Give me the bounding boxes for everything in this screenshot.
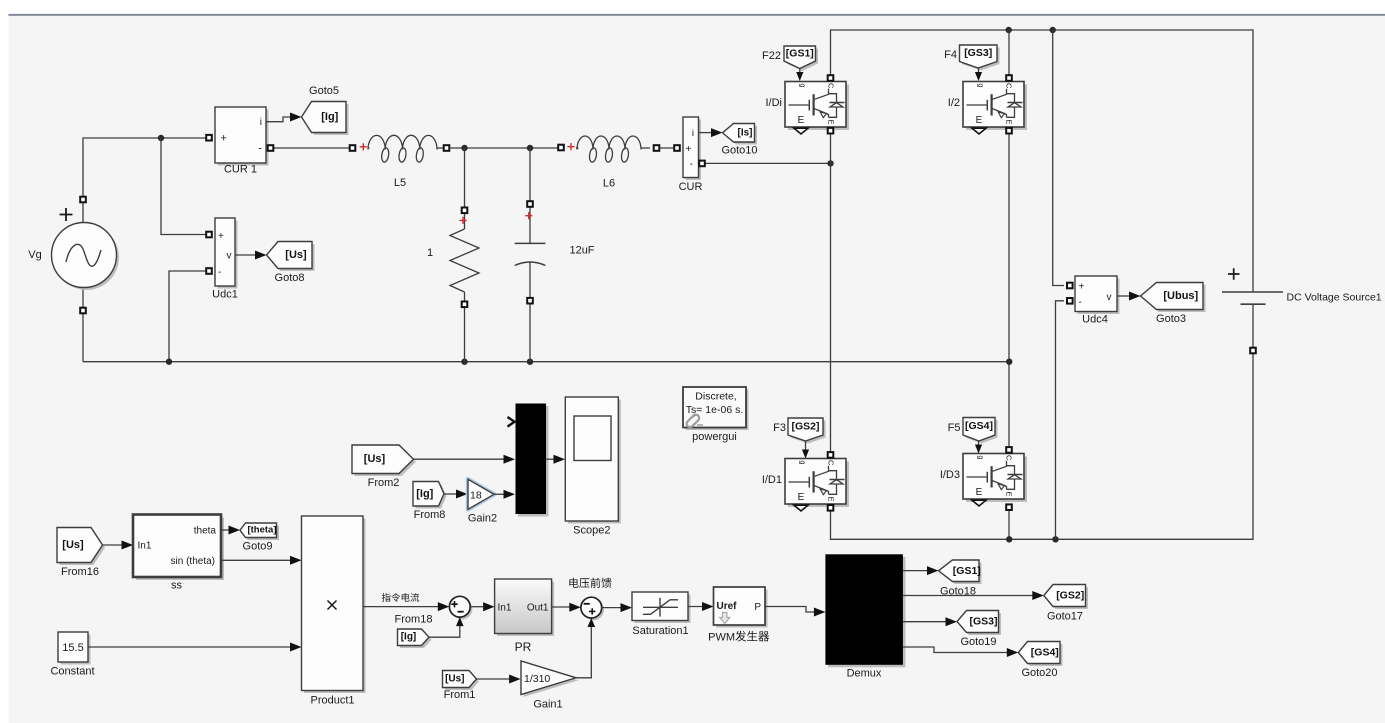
svg-text:Goto17: Goto17 [1047,611,1083,623]
sum Sum2 [581,597,604,620]
wire right leg mid (I/2 emitter to I/D3 collector) [1008,127,1010,454]
goto tag Goto8 [Us] [267,242,315,285]
wire F4 gate arrow [978,68,980,74]
svg-text:From16: From16 [61,566,99,578]
svg-text:L5: L5 [394,177,406,189]
goto tag Goto20 [GS4] [1018,642,1062,680]
svg-text:Saturation1: Saturation1 [632,625,688,637]
svg-text:C: C [1005,83,1014,89]
from tag F22 [GS1] [762,46,818,71]
svg-text:+: + [221,133,227,145]
gain Gain1 [521,661,579,711]
IGBT I/2 [948,82,1027,135]
wire ss sin(theta) to Product1 [221,559,293,561]
svg-text:[Us]: [Us] [445,674,464,685]
svg-text:From2: From2 [368,477,400,489]
wire left leg mid (I/Di emitter to I/D1 collector) [830,127,832,459]
junction top bus / Udc4 + branch [1050,27,1056,33]
wire bottom AC bus [83,361,1010,363]
wire CUR 1 - output to L5 [269,147,353,149]
svg-text:In1: In1 [498,603,512,614]
wire Vg top to CUR 1 + input [83,138,209,223]
svg-text:[Ig]: [Ig] [321,111,338,123]
wire From2 to Mux [414,458,508,460]
svg-text:Gain1: Gain1 [533,699,562,711]
svg-text:Product1: Product1 [310,695,354,707]
wire resistor to bottom bus [464,292,466,362]
svg-text:Goto20: Goto20 [1021,667,1057,679]
svg-text:i: i [692,128,694,139]
svg-text:Vg: Vg [28,249,41,261]
junction bottom DC bus / I/D3 emitter [1006,536,1012,542]
svg-text:[GS3]: [GS3] [964,47,992,59]
wire DC top bus [831,30,1254,292]
svg-text:v: v [1107,292,1112,303]
wire capacitor to bottom bus [529,263,531,362]
from tag From8 [Ig] [413,482,447,522]
node A junction (Vg top / Udc1 branch) [158,135,164,141]
PR controller block [495,579,554,654]
svg-text:v: v [227,251,232,262]
svg-text:g: g [799,83,808,87]
wire Gain1 to Sum2 bottom [576,625,591,678]
svg-text:sin (theta): sin (theta) [171,556,215,567]
svg-text:Goto10: Goto10 [721,145,757,157]
svg-text:Goto9: Goto9 [243,541,273,553]
svg-text:[Ig]: [Ig] [401,632,417,643]
powergui block [683,387,749,443]
svg-text:Demux: Demux [847,668,882,680]
junction bottom bus / Udc1 branch [166,359,172,365]
IGBT I/D3 [940,454,1027,507]
svg-text:-: - [1079,297,1082,308]
wire From16 to ss [103,544,126,546]
demux Demux (black) [825,554,905,679]
PWM generator block [708,587,769,644]
mux Mux1 (black) [508,404,549,517]
polarity mark L6 left [558,145,564,151]
svg-text:[Us]: [Us] [285,249,307,261]
wire F5 gate arrow [978,441,980,446]
svg-text:E: E [827,496,836,501]
svg-text:[GS3]: [GS3] [969,616,997,628]
svg-text:C: C [827,83,836,89]
wire Demux out4 to Goto20 [903,647,1010,653]
svg-text:CUR: CUR [679,181,703,193]
svg-text:E: E [976,115,983,126]
svg-text:F22: F22 [762,50,781,62]
svg-text:theta: theta [194,526,217,537]
svg-text:[Ig]: [Ig] [416,488,433,500]
DC Voltage Source1 battery [1222,268,1382,353]
svg-text:Goto19: Goto19 [960,636,996,648]
wire PWM P output to Demux [765,607,818,613]
svg-text:F4: F4 [944,49,957,61]
from tag From2 [Us] [352,445,416,489]
svg-text:E: E [798,492,805,503]
svg-text:I/D1: I/D1 [762,474,782,486]
svg-text:g: g [799,460,808,464]
svg-text:Goto8: Goto8 [275,272,305,284]
svg-text:Out1: Out1 [527,603,549,614]
wire Udc4 - branch [1056,301,1065,540]
svg-text:Udc1: Udc1 [212,289,238,301]
saturation Saturation1 [632,592,691,637]
svg-text:Scope2: Scope2 [573,525,610,537]
goto tag Goto5 [Ig] [302,85,349,135]
goto tag Goto18 [GS1] [939,560,982,597]
wire Udc1 v output to Goto8 [235,254,258,256]
label command current (zhiling dianliu) [382,593,419,602]
svg-text:Uref: Uref [717,601,738,612]
svg-text:Udc4: Udc4 [1082,314,1108,326]
svg-text:[GS4]: [GS4] [965,420,993,432]
svg-text:1/310: 1/310 [524,673,550,685]
from tag From18 [Ig] [398,629,432,648]
svg-text:+: + [1079,282,1085,293]
svg-text:F5: F5 [948,422,961,434]
svg-text:1: 1 [427,247,433,259]
svg-text:E: E [1005,119,1014,124]
wire branch to Udc1 + input [161,138,209,235]
svg-text:Discrete,: Discrete, [695,391,736,403]
svg-text:[GS4]: [GS4] [1031,647,1059,659]
wire PR to Sum2 [552,606,572,608]
label voltage feedforward (dianya qiankui) [569,578,611,588]
goto tag Goto9 [theta] [240,523,279,553]
junction bottom DC bus / Udc4 - branch [1052,536,1058,542]
wire From8 to Gain2 [444,493,459,495]
inductor L5 [368,135,450,189]
product Product1 [302,516,366,707]
svg-text:L6: L6 [603,178,615,190]
svg-text:From8: From8 [414,509,446,521]
svg-text:P: P [754,602,761,613]
svg-text:15.5: 15.5 [62,642,83,654]
svg-text:E: E [827,119,836,124]
svg-text:DC Voltage Source1: DC Voltage Source1 [1287,292,1382,304]
wire F22 gate arrow [799,69,801,75]
svg-text:-: - [218,267,221,278]
AC source Vg [28,197,119,314]
wire L5 to L6 through filter nodes [449,147,559,149]
svg-text:powergui: powergui [692,431,737,443]
resistor 1 [427,229,479,292]
svg-text:18: 18 [470,490,482,502]
inductor L6 [576,136,659,190]
svg-text:g: g [977,455,986,459]
svg-text:Goto3: Goto3 [1156,313,1186,325]
wire Mux to Scope2 [546,458,557,460]
from tag From1 [Us] [443,671,480,702]
svg-text:[Us]: [Us] [364,453,386,465]
wire Vg bottom to bottom AC bus [82,288,84,362]
goto tag Goto17 [GS2] [1044,585,1088,623]
capacitor branch wire [529,148,531,243]
svg-text:[Ubus]: [Ubus] [1163,290,1198,302]
current measurement CUR [679,117,703,193]
wire left leg bottom to DC bottom bus [831,304,1254,539]
svg-text:I/2: I/2 [948,97,960,109]
svg-text:g: g [977,83,986,87]
IGBT I/D1 [762,459,849,512]
svg-text:-: - [258,143,262,155]
svg-text:In1: In1 [138,541,152,552]
sum Sum1 [449,596,472,619]
scope Scope2 [565,397,621,537]
wire Sum2 to Saturation1 [602,607,624,609]
svg-text:[GS2]: [GS2] [1056,590,1084,602]
from tag F4 [GS3] [944,45,999,71]
svg-text:Constant: Constant [50,666,94,678]
wire Udc4 v output to Goto3 [1117,295,1132,297]
wire Demux out2 to Goto17 [903,595,1036,597]
load resistor branch wire [464,148,466,229]
junction top bus / I2 collector [1006,27,1012,33]
wire Demux out1 to Goto18 [903,570,930,572]
polarity mark L5 left [360,143,367,150]
wire Sum1 to PR [470,606,486,608]
svg-text:+: + [686,144,692,155]
wire CUR 1 i output to Goto5 [266,117,293,122]
svg-text:Gain2: Gain2 [468,513,497,525]
wire CUR i output to Goto10 [699,132,715,134]
svg-text:[GS2]: [GS2] [791,421,819,433]
voltage measurement Udc4 [1067,276,1120,326]
svg-text:[GS1]: [GS1] [953,565,981,577]
svg-text:E: E [798,115,805,126]
from tag F3 [GS2] [773,418,825,444]
goto tag Goto3 [Ubus] [1141,283,1206,326]
svg-text:i: i [260,117,262,128]
svg-text:E: E [1005,491,1014,496]
svg-text:PWM: PWM [708,632,735,644]
subsystem ss [133,515,224,592]
IGBT I/Di [766,82,850,135]
svg-text:C: C [827,460,836,466]
voltage measurement Udc1 [206,218,238,301]
wire Gain2 to Mux [494,493,507,495]
svg-text:ss: ss [171,580,183,592]
from tag From16 [Us] [57,528,105,579]
from tag F5 [GS4] [948,418,998,444]
svg-text:F3: F3 [773,422,786,434]
wire From1 to Gain1 [477,678,513,680]
svg-text:CUR 1: CUR 1 [224,164,257,176]
wire Demux out3 to Goto19 [903,621,949,623]
wire right leg top (I/2 collector) [1008,30,1010,82]
svg-text:[theta]: [theta] [247,525,276,536]
wire Constant to Product1 [88,646,293,648]
wire Udc1 - input from bottom bus [169,271,209,362]
wire ss theta to Goto9 [221,529,232,531]
svg-text:I/Di: I/Di [766,97,783,109]
svg-text:12uF: 12uF [569,245,594,257]
junction bottom bus / load R branch [461,359,467,365]
gain Gain2 [468,479,497,524]
svg-text:[GS1]: [GS1] [786,48,814,60]
wire F3 gate arrow [805,441,807,451]
goto tag Goto10 [Is] [721,124,757,157]
wire Udc4 + branch [1053,30,1064,286]
svg-text:-: - [690,159,693,170]
svg-text:+: + [218,231,224,242]
svg-text:[Us]: [Us] [62,539,84,551]
wire CUR - output to bridge left leg [704,162,831,164]
wire right leg bottom (I/D3 emitter) [1008,504,1010,540]
svg-text:From18: From18 [395,614,433,626]
wire Saturation1 to PWM [688,606,705,608]
svg-text:[Is]: [Is] [738,127,753,138]
current measurement CUR 1 [206,107,268,176]
svg-text:I/D3: I/D3 [940,469,960,481]
svg-text:PR: PR [515,640,532,654]
svg-text:Goto5: Goto5 [309,85,339,97]
window top border line [9,14,1385,16]
svg-text:C: C [1005,455,1014,461]
svg-text:From1: From1 [444,689,476,701]
junction bottom bus / capacitor branch [527,359,533,365]
junction mid bus / right leg [1006,359,1012,365]
wire L6 to CUR [659,147,676,149]
capacitor 12uF [515,243,595,265]
wire Product1 to Sum1 [363,606,441,608]
constant 15.5 [50,632,94,678]
svg-text:E: E [976,487,983,498]
goto tag Goto19 [GS3] [957,611,1001,649]
wire From18 to Sum1 bottom [429,624,460,637]
